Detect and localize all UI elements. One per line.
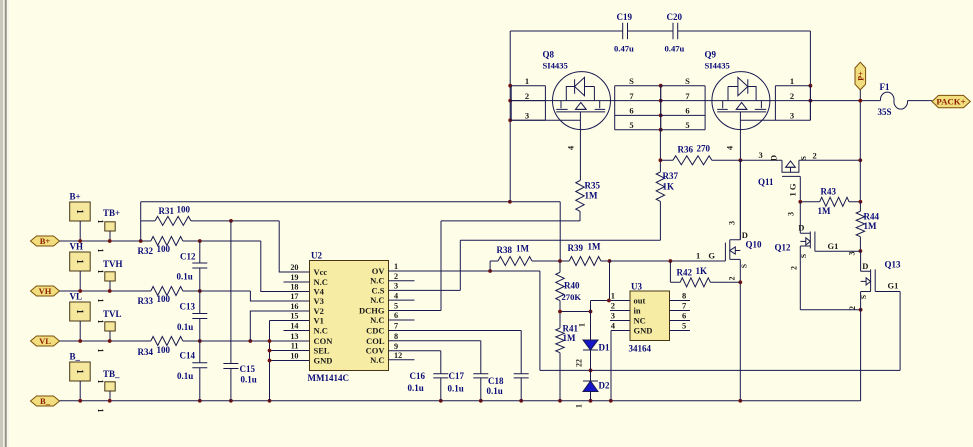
svg-text:C20: C20 xyxy=(667,12,683,22)
svg-text:S: S xyxy=(859,295,868,299)
svg-text:1: 1 xyxy=(96,349,105,353)
svg-text:C18: C18 xyxy=(488,376,504,386)
svg-text:3: 3 xyxy=(394,282,398,291)
svg-text:6: 6 xyxy=(685,106,689,116)
port B+ xyxy=(31,236,60,246)
svg-text:1M: 1M xyxy=(563,333,577,343)
svg-text:1M: 1M xyxy=(818,206,832,216)
resistor R35 xyxy=(576,181,601,221)
svg-text:0.1u: 0.1u xyxy=(177,272,193,282)
wire V2 branch xyxy=(250,311,309,341)
svg-text:5: 5 xyxy=(394,302,398,311)
capacitor C12 xyxy=(177,241,208,291)
svg-text:7: 7 xyxy=(394,322,398,331)
svg-text:TVH: TVH xyxy=(103,259,123,269)
svg-text:Q12: Q12 xyxy=(775,243,792,253)
wire C.S net (pin3) xyxy=(389,240,661,290)
fuse F1 xyxy=(878,82,908,117)
wire U3 out net xyxy=(591,261,631,340)
svg-text:D2: D2 xyxy=(599,381,610,391)
svg-text:C16: C16 xyxy=(410,371,426,381)
wire VH rail xyxy=(60,289,310,301)
svg-text:R36: R36 xyxy=(678,145,694,155)
svg-text:6: 6 xyxy=(682,311,686,321)
transistor Q11 xyxy=(758,150,817,202)
svg-text:2: 2 xyxy=(611,301,615,311)
svg-text:D1: D1 xyxy=(599,343,610,353)
svg-text:SI4435: SI4435 xyxy=(705,61,730,71)
svg-text:COL: COL xyxy=(366,336,385,346)
resistor R33 xyxy=(138,287,183,307)
svg-text:1K: 1K xyxy=(663,182,675,192)
svg-text:R42: R42 xyxy=(677,268,693,278)
wire drain bus right xyxy=(809,31,813,120)
svg-text:C17: C17 xyxy=(449,371,465,381)
test point TB_ xyxy=(103,369,120,401)
transistor Q13 xyxy=(848,251,902,401)
connector VH (1-pin box) xyxy=(70,242,91,293)
svg-text:1: 1 xyxy=(96,249,105,253)
svg-text:SI4435: SI4435 xyxy=(543,61,568,71)
svg-text:SEL: SEL xyxy=(314,346,330,356)
resistor R37 xyxy=(656,130,678,241)
wire pack sense line xyxy=(660,158,862,162)
wire Q8 gate lead xyxy=(510,112,580,181)
wire R31 branch xyxy=(141,202,310,272)
svg-text:V3: V3 xyxy=(314,296,324,306)
wire DCHG net (pin5) xyxy=(389,211,581,310)
wire B+ rail xyxy=(60,239,310,291)
IC U2 MM1414C xyxy=(284,251,415,384)
svg-text:MM1414C: MM1414C xyxy=(308,373,350,383)
wire CDC net (pin7) xyxy=(389,331,522,401)
svg-text:22: 22 xyxy=(575,359,584,367)
svg-text:R35: R35 xyxy=(585,181,601,191)
svg-text:U2: U2 xyxy=(311,251,322,261)
capacitor C19 xyxy=(614,12,634,54)
svg-text:VH: VH xyxy=(39,286,52,296)
svg-text:0.47u: 0.47u xyxy=(665,44,685,54)
svg-text:1: 1 xyxy=(96,220,105,224)
resistor R42 xyxy=(670,261,740,287)
svg-text:R31: R31 xyxy=(159,206,175,216)
svg-text:2: 2 xyxy=(525,91,529,101)
svg-text:R34: R34 xyxy=(138,347,154,357)
svg-text:R39: R39 xyxy=(568,243,584,253)
svg-text:1 G: 1 G xyxy=(696,251,718,261)
svg-text:6: 6 xyxy=(394,311,398,320)
svg-text:N.C: N.C xyxy=(370,315,384,325)
wire COV net (pin9) xyxy=(389,351,441,401)
wire B_ rail xyxy=(60,399,861,403)
svg-text:R38: R38 xyxy=(497,245,513,255)
svg-text:1: 1 xyxy=(96,270,105,274)
wire COL net (pin8) xyxy=(389,341,481,401)
capacitor C18 xyxy=(487,374,529,396)
resistor R43 xyxy=(798,187,862,217)
svg-text:C13: C13 xyxy=(180,302,196,312)
svg-text:15: 15 xyxy=(290,312,298,321)
svg-text:35S: 35S xyxy=(878,107,892,117)
svg-text:CON: CON xyxy=(314,336,334,346)
svg-text:G1: G1 xyxy=(888,281,899,291)
svg-text:V4: V4 xyxy=(314,287,325,297)
svg-text:270: 270 xyxy=(697,144,711,154)
svg-text:1: 1 xyxy=(96,320,105,324)
svg-text:34164: 34164 xyxy=(629,344,652,354)
svg-text:12: 12 xyxy=(394,351,402,360)
svg-text:1: 1 xyxy=(611,291,615,301)
svg-text:R40: R40 xyxy=(564,281,580,291)
svg-text:C14: C14 xyxy=(180,351,196,361)
svg-text:1M: 1M xyxy=(864,221,878,231)
Q8 source pin box (1,2,3) xyxy=(511,76,545,121)
resistor R39 xyxy=(558,242,611,266)
svg-text:8: 8 xyxy=(682,291,686,301)
svg-text:0.1u: 0.1u xyxy=(487,386,503,396)
svg-text:1: 1 xyxy=(96,380,105,384)
svg-text:1: 1 xyxy=(575,404,584,408)
svg-text:8: 8 xyxy=(394,332,398,341)
svg-text:0.47u: 0.47u xyxy=(614,44,634,54)
svg-text:0.1u: 0.1u xyxy=(177,322,193,332)
svg-text:N.C: N.C xyxy=(314,277,328,287)
transistor Q8 SI4435 xyxy=(543,50,611,151)
svg-text:1: 1 xyxy=(96,299,105,303)
svg-text:OV: OV xyxy=(372,266,386,276)
svg-text:0.1u: 0.1u xyxy=(241,375,257,385)
capacitor C17 xyxy=(448,371,489,394)
svg-text:B_: B_ xyxy=(40,396,51,406)
svg-text:1M: 1M xyxy=(588,242,602,252)
svg-text:20: 20 xyxy=(290,263,298,272)
resistor R31 xyxy=(155,205,191,226)
svg-text:1M: 1M xyxy=(585,191,599,201)
svg-text:270K: 270K xyxy=(562,292,582,302)
capacitor C20 xyxy=(665,12,685,54)
svg-text:10: 10 xyxy=(290,352,298,361)
capacitor C13 xyxy=(177,291,207,341)
IC U3 34164 xyxy=(610,282,690,354)
svg-text:100: 100 xyxy=(157,294,171,304)
capacitor C16 xyxy=(408,371,449,393)
test point TB+ xyxy=(103,208,120,241)
svg-text:R37: R37 xyxy=(663,171,679,181)
svg-text:14: 14 xyxy=(290,322,298,331)
svg-text:D: D xyxy=(742,230,748,240)
svg-text:C.S: C.S xyxy=(372,285,385,295)
svg-text:VL: VL xyxy=(70,292,83,302)
resistor R38 xyxy=(490,244,560,272)
svg-text:3: 3 xyxy=(728,221,737,225)
svg-text:1: 1 xyxy=(75,259,85,264)
svg-text:1M: 1M xyxy=(516,244,530,254)
pin number 1 marks (connector leads) xyxy=(96,220,105,413)
svg-text:U3: U3 xyxy=(631,282,642,292)
svg-text:1: 1 xyxy=(578,323,587,327)
svg-text:1: 1 xyxy=(75,369,85,374)
svg-text:3: 3 xyxy=(848,252,857,256)
svg-text:100: 100 xyxy=(177,205,191,215)
svg-text:Q11: Q11 xyxy=(758,177,774,187)
svg-text:Q8: Q8 xyxy=(543,50,555,60)
svg-text:13: 13 xyxy=(290,332,298,341)
svg-text:GND: GND xyxy=(634,326,653,336)
svg-text:S: S xyxy=(799,156,808,160)
svg-text:R44: R44 xyxy=(864,212,880,222)
svg-text:0.1u: 0.1u xyxy=(448,384,464,394)
svg-text:NC: NC xyxy=(634,316,646,326)
svg-text:S: S xyxy=(740,264,749,268)
svg-text:CDC: CDC xyxy=(366,326,384,336)
svg-text:5: 5 xyxy=(629,120,633,130)
diode D2 xyxy=(575,359,610,408)
svg-text:1: 1 xyxy=(75,209,85,214)
svg-text:1: 1 xyxy=(790,76,794,86)
svg-text:11: 11 xyxy=(291,342,299,351)
test point TVH xyxy=(103,259,123,291)
svg-text:3: 3 xyxy=(759,150,763,160)
port P+ xyxy=(855,62,866,100)
svg-text:N.C: N.C xyxy=(370,276,384,286)
wire pack output xyxy=(810,99,932,202)
Q8 drain pin box (S,7,6,5) xyxy=(615,76,663,132)
svg-text:1: 1 xyxy=(525,76,529,86)
svg-text:0.1u: 0.1u xyxy=(177,371,193,381)
svg-text:2: 2 xyxy=(790,266,799,270)
svg-text:N.C: N.C xyxy=(370,355,384,365)
svg-text:5: 5 xyxy=(682,321,686,331)
svg-text:100: 100 xyxy=(157,345,171,355)
svg-text:100: 100 xyxy=(157,244,171,254)
svg-text:S: S xyxy=(799,254,808,258)
port VL xyxy=(31,336,60,346)
svg-text:5: 5 xyxy=(685,120,689,130)
wire GND/V1 bus (U2 pins 15,13,11,10) xyxy=(268,321,310,401)
svg-text:Vcc: Vcc xyxy=(314,267,328,277)
svg-text:VL: VL xyxy=(39,336,51,346)
svg-text:D: D xyxy=(862,261,868,271)
svg-text:2: 2 xyxy=(728,277,737,281)
svg-text:6: 6 xyxy=(629,106,633,116)
svg-text:R32: R32 xyxy=(138,246,154,256)
test point TVL xyxy=(103,309,122,341)
svg-text:S: S xyxy=(685,76,690,86)
wire top bypass line xyxy=(510,30,810,32)
svg-text:C19: C19 xyxy=(617,12,633,22)
wire source bus left xyxy=(508,31,512,202)
resistor R40 xyxy=(556,261,582,312)
svg-text:3: 3 xyxy=(525,111,529,121)
wire Q9 gate lead xyxy=(739,112,776,240)
wire gate line (R39 to Q10) xyxy=(610,259,726,263)
capacitor C15 xyxy=(223,221,256,401)
resistor R32 xyxy=(138,237,183,257)
svg-text:3: 3 xyxy=(790,111,794,121)
svg-text:PACK+: PACK+ xyxy=(936,97,965,107)
svg-text:G1: G1 xyxy=(828,241,839,251)
svg-text:Q9: Q9 xyxy=(705,50,717,60)
connector B_ (1-pin box) xyxy=(70,352,91,403)
resistor R36 xyxy=(673,144,712,165)
svg-text:2: 2 xyxy=(394,272,398,281)
svg-text:TB+: TB+ xyxy=(103,208,120,218)
svg-text:0.1u: 0.1u xyxy=(408,383,424,393)
connector VL (1-pin box) xyxy=(70,292,91,343)
wire Q9 channel xyxy=(705,100,775,102)
svg-text:3: 3 xyxy=(611,311,615,321)
svg-text:1: 1 xyxy=(75,309,85,314)
connector B+ (1-pin box) xyxy=(70,192,91,243)
svg-text:C15: C15 xyxy=(240,364,256,374)
svg-text:B+: B+ xyxy=(40,236,51,246)
wire OV net (pin1) xyxy=(389,269,901,372)
port B_ xyxy=(31,396,60,406)
port PACK+ xyxy=(932,95,970,107)
svg-text:D: D xyxy=(798,223,804,233)
svg-text:TB_: TB_ xyxy=(103,369,120,379)
svg-text:2: 2 xyxy=(848,306,857,310)
transistor Q10 xyxy=(696,160,762,400)
svg-text:out: out xyxy=(634,296,646,306)
svg-text:V1: V1 xyxy=(314,316,324,326)
svg-text:DCHG: DCHG xyxy=(359,306,385,316)
svg-text:N.C: N.C xyxy=(314,326,328,336)
svg-text:16: 16 xyxy=(290,302,298,311)
svg-text:9: 9 xyxy=(394,342,398,351)
transistor Q12 xyxy=(775,202,863,312)
svg-text:in: in xyxy=(634,306,641,316)
svg-text:R41: R41 xyxy=(563,324,579,334)
svg-text:18: 18 xyxy=(290,283,298,292)
svg-text:Q10: Q10 xyxy=(746,240,763,250)
svg-text:C12: C12 xyxy=(180,252,196,262)
port VH xyxy=(31,286,60,296)
svg-text:VH: VH xyxy=(70,242,84,252)
capacitor C14 xyxy=(177,341,207,401)
svg-text:R33: R33 xyxy=(138,296,154,306)
svg-text:1 G: 1 G xyxy=(788,183,798,196)
svg-text:P+: P+ xyxy=(856,71,865,81)
svg-text:17: 17 xyxy=(290,292,298,301)
svg-text:N.C: N.C xyxy=(370,295,384,305)
svg-text:D: D xyxy=(769,155,779,161)
resistor R44 xyxy=(856,202,879,253)
svg-text:R43: R43 xyxy=(821,187,837,197)
svg-text:V2: V2 xyxy=(314,306,324,316)
svg-text:2: 2 xyxy=(790,91,794,101)
svg-text:GND: GND xyxy=(314,356,333,366)
svg-text:F1: F1 xyxy=(880,82,890,92)
svg-text:3: 3 xyxy=(787,212,796,216)
wire Q8 channel xyxy=(510,100,615,102)
wire VL rail xyxy=(60,339,270,343)
svg-text:1: 1 xyxy=(96,409,105,413)
Q9 source pin box (1,2,3) xyxy=(775,76,810,121)
svg-text:19: 19 xyxy=(290,273,298,282)
svg-text:TVL: TVL xyxy=(103,309,122,319)
svg-text:B+: B+ xyxy=(70,192,81,202)
svg-text:Q13: Q13 xyxy=(885,260,902,270)
svg-text:B_: B_ xyxy=(70,352,81,362)
resistor R41 xyxy=(556,310,593,401)
svg-text:1K: 1K xyxy=(696,266,708,276)
svg-text:4: 4 xyxy=(394,291,398,300)
svg-text:1: 1 xyxy=(394,262,398,271)
transistor Q9 SI4435 xyxy=(705,50,770,151)
wire Vcc top line xyxy=(141,200,561,261)
diode D1 xyxy=(578,323,610,370)
resistor R34 xyxy=(138,337,183,358)
Q9 drain pin box (S,7,6,5) xyxy=(661,76,705,130)
svg-text:S: S xyxy=(629,76,634,86)
wire U3 GND lead xyxy=(611,331,630,401)
svg-text:2: 2 xyxy=(813,151,817,161)
